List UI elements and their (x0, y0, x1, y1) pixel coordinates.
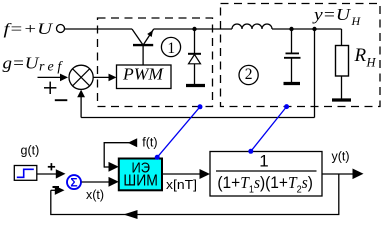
label x(t) (86, 188, 104, 202)
f(t) feed wire with arrows (104, 138, 137, 172)
svg-text:y(t): y(t) (332, 149, 350, 163)
blue dot on block2 boundary (284, 104, 289, 109)
load ground rail bar (332, 98, 351, 101)
junction capacitor node (289, 27, 293, 31)
wire inductor to output node (272, 28, 342, 30)
circled label 1 (161, 37, 180, 57)
svg-text:ref: ref (39, 60, 65, 75)
node g reference label g=Uref (3, 54, 65, 75)
blue dot on PWM model corner (155, 155, 160, 160)
dashed block 1 boundary (98, 18, 213, 107)
capacitor C1 (284, 29, 301, 82)
resistor RH label (354, 45, 377, 70)
blue dot on block1 boundary (198, 104, 203, 109)
svg-text:x[nT]: x[nT] (166, 178, 197, 192)
diode ground rail bar (186, 84, 205, 87)
wire to load resistor (341, 29, 343, 46)
output node label y=UH (312, 5, 362, 28)
svg-text:1: 1 (167, 40, 175, 57)
label g(t) (21, 144, 40, 158)
schematic feedback wire (81, 117, 314, 119)
transistor VT1 switch (132, 29, 154, 65)
transfer function block (210, 152, 322, 197)
wire output node down to feedback (314, 29, 316, 118)
svg-text:H: H (351, 14, 362, 28)
summator sigma circle (67, 175, 81, 190)
label y(t) (332, 149, 350, 163)
svg-text:ШИМ: ШИМ (123, 173, 157, 190)
blue dot on transfer block top (248, 149, 253, 154)
model feedback wire (51, 174, 339, 219)
feedback arrow into summator (51, 186, 65, 195)
wire PWM model to transfer block with arrow (162, 169, 210, 179)
svg-text:H: H (366, 56, 377, 70)
wire step to summator with arrow (37, 169, 66, 178)
minus sign summator (53, 186, 60, 188)
PWM controller block (117, 65, 172, 89)
capacitor ground rail bar (284, 82, 301, 85)
label f(t) (142, 136, 157, 150)
PWM pulse element block (119, 159, 162, 191)
diode VD1 (188, 29, 201, 84)
minus sign (55, 99, 68, 101)
feedback arrow into comparator bottom (77, 90, 85, 118)
svg-text:x(t): x(t) (86, 188, 104, 202)
input terminal circle (57, 25, 65, 33)
circled label 2 (239, 65, 258, 84)
blue link line 2 filter to model (251, 107, 287, 152)
plus sign summator (48, 163, 55, 170)
wire from terminal to transistor (65, 28, 133, 30)
inductor L1 (232, 24, 272, 29)
junction output node (312, 27, 316, 31)
node f input label f=+U (4, 21, 54, 38)
output wire with arrow (322, 169, 364, 180)
blue link line 1 PWM to model (157, 107, 200, 158)
wire resistor to ground (341, 76, 343, 99)
dashed block 2 boundary (221, 4, 381, 107)
resistor RH (336, 46, 349, 77)
svg-text:PWM: PWM (122, 65, 164, 84)
svg-text:y=U: y=U (312, 5, 352, 24)
junction diode node (192, 27, 196, 31)
svg-text:f(t): f(t) (142, 136, 157, 150)
label x[nT] (166, 178, 197, 192)
wire summator to PWM model with arrow (82, 177, 119, 187)
plus sign (44, 82, 56, 94)
wire transistor to inductor (154, 28, 232, 30)
svg-text:g=U: g=U (3, 54, 40, 73)
svg-text:1: 1 (259, 152, 268, 171)
svg-text:2: 2 (245, 66, 253, 83)
svg-text:g(t): g(t) (21, 144, 40, 158)
svg-text:Σ: Σ (70, 176, 77, 190)
wire g input with arrow (38, 74, 69, 82)
svg-text:R: R (354, 45, 367, 66)
comparator circle with X (69, 65, 93, 89)
svg-text:f=+U: f=+U (4, 21, 54, 38)
step source block (14, 166, 37, 181)
wire comparator to PWM with arrow (93, 74, 116, 82)
